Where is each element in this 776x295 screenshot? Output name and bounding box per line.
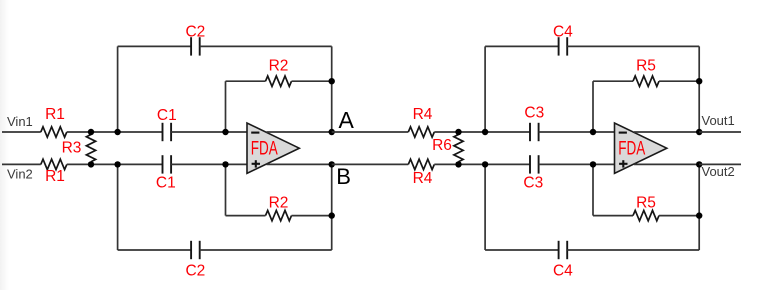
junction dot R5 top tap	[590, 129, 596, 135]
svg-text:R2: R2	[269, 195, 289, 212]
wire vertical down to C2 bottom rail	[117, 164, 119, 250]
junction dot node bottom (U2 out-)	[696, 161, 702, 167]
left edge shading	[0, 0, 1, 1]
svg-text:C4: C4	[553, 24, 573, 41]
junction dot R6 top	[455, 129, 461, 135]
wire bottom: R4 to C3	[434, 163, 530, 165]
wire vertical up to C2 top rail	[117, 46, 119, 132]
junction dot R5 top at node column	[696, 78, 702, 84]
resistor R2 (bottom)	[266, 210, 292, 220]
capacitor C2 (top)	[190, 37, 192, 55]
svg-text:R6: R6	[432, 137, 452, 154]
wire R5 top rail right	[659, 80, 699, 82]
resistor R5 (bottom)	[633, 210, 659, 220]
junction dot R2 top at node column	[329, 78, 335, 84]
junction dot R2 bottom tap	[222, 161, 228, 167]
wire bottom: C3 to FDA + input	[539, 163, 615, 165]
wire R2 bottom rail right	[292, 215, 332, 217]
svg-text:R5: R5	[636, 195, 656, 212]
junction dot R5 bottom tap	[590, 161, 596, 167]
op-amp U1 plus input marker	[252, 163, 260, 165]
svg-text:R1: R1	[45, 106, 65, 123]
svg-text:R2: R2	[269, 58, 289, 75]
junction dot C4 top tap	[482, 129, 488, 135]
wire top: R4 to C3	[434, 131, 530, 133]
wire R5 bottom rail right	[659, 215, 699, 217]
wire R2 bottom rail left	[226, 215, 266, 217]
junction dot R3 top	[88, 129, 94, 135]
wire U2 bottom output to node	[634, 163, 699, 165]
wire top: C3 to FDA - input	[539, 131, 615, 133]
op-amp U2 plus input marker	[619, 163, 627, 165]
wire vertical up to R2 top rail	[225, 81, 227, 132]
wire vertical down to R5 bottom rail	[592, 164, 594, 215]
wire vertical C4 bottom rail up to node	[698, 164, 700, 250]
junction dot R2 bottom at node column	[329, 212, 335, 218]
wire top: C1 to FDA - input	[171, 131, 247, 133]
wire vertical up to C4 top rail	[484, 46, 486, 132]
svg-text:C2: C2	[185, 24, 205, 41]
wire C4 bottom rail right	[567, 249, 699, 251]
svg-text:Vin1: Vin1	[7, 114, 33, 129]
wire R2 top rail right	[292, 80, 332, 82]
capacitor C1 (bottom)	[162, 155, 164, 173]
junction dot node top (U2 out+)	[696, 129, 702, 135]
capacitor C4 (top)	[558, 37, 560, 55]
svg-text:C1: C1	[156, 175, 176, 192]
wire top: R1 to C1	[67, 131, 163, 133]
resistor R1 (bottom)	[41, 159, 67, 169]
wire C2 bottom rail right	[200, 249, 332, 251]
op-amp U2 FDA triangle	[615, 123, 667, 173]
wire Vout2 lead	[699, 163, 741, 165]
wire R1 bottom input lead	[2, 163, 41, 165]
junction dot R2 top tap	[222, 129, 228, 135]
wire vertical up to R5 top rail	[592, 81, 594, 132]
op-amp U2 minus input marker	[619, 132, 627, 134]
wire U1 top output to node	[267, 131, 332, 133]
capacitor C1 (top)	[162, 123, 164, 141]
wire U1 bottom output to node	[267, 163, 332, 165]
wire vertical C2 bottom rail up to node	[331, 164, 333, 250]
wire Vout1 lead	[699, 131, 741, 133]
svg-text:FDA: FDA	[618, 139, 645, 160]
svg-text:R5: R5	[636, 58, 656, 75]
resistor R3 (vertical, between lines)	[86, 135, 95, 162]
capacitor C3 (bottom)	[529, 155, 531, 173]
wire vertical down to R2 bottom rail	[225, 164, 227, 215]
wire C2 top rail right	[200, 45, 332, 47]
wire U2 top output to node	[634, 131, 699, 133]
svg-text:R4: R4	[413, 170, 433, 187]
svg-text:A: A	[339, 107, 355, 133]
op-amp U1 FDA triangle	[247, 123, 299, 173]
resistor R2 (top)	[266, 76, 292, 86]
capacitor C4 (bottom)	[558, 241, 560, 259]
svg-text:Vout1: Vout1	[702, 113, 735, 128]
svg-text:R4: R4	[413, 106, 433, 123]
svg-text:C3: C3	[523, 175, 543, 192]
wire C2 bottom rail left	[118, 249, 192, 251]
resistor R1 (top)	[41, 127, 67, 137]
svg-text:C4: C4	[553, 263, 573, 280]
wire R4 bottom input lead	[332, 163, 409, 165]
svg-text:C3: C3	[524, 105, 544, 122]
wire R5 bottom rail left	[593, 215, 633, 217]
wire C4 bottom rail left	[485, 249, 558, 251]
wire R5 top rail left	[593, 80, 633, 82]
resistor R6 (vertical, between lines)	[454, 135, 463, 162]
svg-text:C1: C1	[157, 107, 177, 124]
svg-text:R1: R1	[45, 168, 65, 185]
junction dot node bottom (U1 out-)	[329, 161, 335, 167]
wire vertical C2 rail down to node	[331, 46, 333, 132]
capacitor C3 (top)	[529, 123, 531, 141]
wire R1 top input lead	[2, 131, 41, 133]
svg-text:C2: C2	[185, 263, 205, 280]
resistor R5 (top)	[633, 76, 659, 86]
junction dot node top (U1 out+)	[329, 129, 335, 135]
wire C4 top rail right	[567, 45, 699, 47]
svg-text:FDA: FDA	[251, 139, 278, 160]
op-amp U1 minus input marker	[251, 132, 259, 134]
wire vertical down to C4 bottom rail	[484, 164, 486, 250]
wire R2 top rail left	[226, 80, 266, 82]
svg-text:Vout2: Vout2	[702, 164, 735, 179]
wire bottom: R1 to C1	[67, 163, 163, 165]
junction dot R5 bottom at node column	[696, 212, 702, 218]
wire C2 top rail left	[118, 45, 192, 47]
svg-text:Vin2: Vin2	[7, 167, 33, 182]
wire R4 top input lead	[332, 131, 409, 133]
capacitor C2 (bottom)	[190, 241, 192, 259]
wire C4 top rail left	[485, 45, 558, 47]
junction dot C2 top tap	[114, 129, 120, 135]
wire bottom: C1 to FDA + input	[171, 163, 247, 165]
junction dot R3 bottom	[88, 161, 94, 167]
junction dot R6 bottom	[455, 161, 461, 167]
junction dot C4 bottom tap	[482, 161, 488, 167]
svg-text:B: B	[336, 164, 351, 189]
junction dot C2 bottom tap	[114, 161, 120, 167]
wire vertical C4 rail down to node	[698, 46, 700, 132]
resistor R4 (top)	[408, 127, 434, 137]
resistor R4 (bottom)	[408, 159, 434, 169]
svg-text:R3: R3	[62, 140, 82, 157]
